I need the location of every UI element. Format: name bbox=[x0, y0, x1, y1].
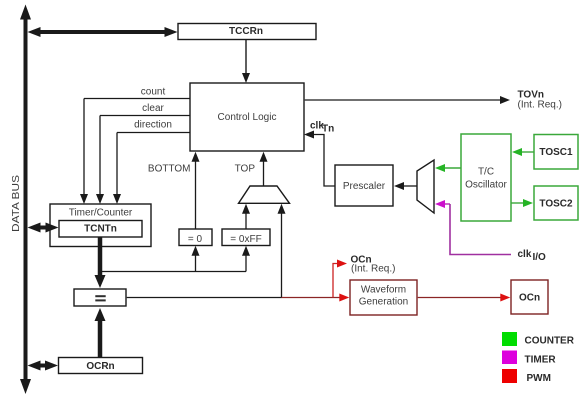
node: data bus top arrowhead bbox=[20, 5, 31, 20]
comparator: 0xFF compare bbox=[222, 229, 270, 246]
block: Prescaler bbox=[335, 165, 393, 206]
wire: bus to OCRn double arrow bbox=[36, 364, 50, 368]
svg-text:(Int. Req.): (Int. Req.) bbox=[518, 100, 562, 111]
wire: DATA BUS vertical bus line bbox=[24, 16, 28, 383]
wire: clear signal bbox=[100, 115, 190, 117]
wire: direction signal bbox=[117, 132, 190, 134]
mux: clock source select bbox=[417, 160, 434, 213]
pin: OCn output bbox=[511, 280, 548, 314]
wire: oscillator to TOSC2 (green) bbox=[511, 202, 525, 204]
svg-text:TOSC1: TOSC1 bbox=[539, 147, 573, 158]
svg-text:= 0: = 0 bbox=[188, 234, 203, 245]
legend: PWM (red) bbox=[502, 369, 517, 383]
svg-text:direction: direction bbox=[134, 120, 172, 131]
wire: count signal bbox=[84, 98, 190, 100]
svg-text:TCNTn: TCNTn bbox=[84, 224, 117, 235]
comparator: equality = bbox=[74, 289, 126, 306]
pin: TOSC1 bbox=[534, 135, 578, 170]
svg-text:OCn: OCn bbox=[519, 293, 540, 304]
svg-text:TIMER: TIMER bbox=[525, 355, 557, 366]
wire: comparator output to waveform generation bbox=[127, 297, 282, 299]
svg-text:DATA BUS: DATA BUS bbox=[11, 175, 22, 232]
svg-text:Tn: Tn bbox=[322, 124, 334, 135]
svg-text:Prescaler: Prescaler bbox=[343, 181, 386, 192]
register TCNTn bbox=[59, 221, 142, 238]
block: T/C Oscillator bbox=[461, 134, 511, 221]
wire: T/C oscillator to mux (green) bbox=[443, 167, 461, 169]
wire: 0xFF compare to TOP mux bbox=[245, 211, 247, 229]
wire: TOP signal to control logic bbox=[263, 159, 265, 186]
block: Timer/Counter bbox=[50, 204, 151, 247]
svg-text:Control Logic: Control Logic bbox=[218, 112, 277, 123]
block: Waveform Generation bbox=[350, 280, 417, 315]
wire: bus to TCCRn double arrow bbox=[37, 30, 168, 34]
wire: TOSC1 to oscillator (green) bbox=[520, 151, 534, 153]
wire: OCn interrupt branch bbox=[333, 264, 339, 298]
svg-text:Waveform: Waveform bbox=[361, 285, 406, 296]
svg-text:TCCRn: TCCRn bbox=[229, 26, 263, 37]
wire: clkTn from prescaler to control logic bbox=[313, 135, 335, 187]
register TCCRn bbox=[178, 24, 316, 40]
svg-text:PWM: PWM bbox=[527, 373, 551, 384]
wire: TCCRn to Control Logic bbox=[245, 40, 247, 75]
register OCRn bbox=[59, 358, 143, 374]
wire: BOTTOM signal to control logic bbox=[195, 159, 197, 229]
svg-text:OCRn: OCRn bbox=[86, 361, 114, 372]
comparator: zero compare bbox=[179, 229, 212, 246]
wire: OCRn match to TOP mux bbox=[281, 211, 283, 298]
svg-text:clk: clk bbox=[518, 249, 532, 260]
svg-text:(Int. Req.): (Int. Req.) bbox=[351, 264, 395, 275]
node: data bus bottom arrowhead bbox=[20, 379, 31, 394]
pin: TOSC2 bbox=[534, 186, 578, 220]
svg-text:TOP: TOP bbox=[235, 164, 256, 175]
svg-text:= 0xFF: = 0xFF bbox=[230, 234, 261, 245]
svg-text:clear: clear bbox=[142, 103, 164, 114]
svg-text:count: count bbox=[141, 87, 166, 98]
wire: mux to prescaler bbox=[402, 185, 417, 187]
mux: TOP select trapezoid bbox=[239, 186, 290, 203]
svg-text:Oscillator: Oscillator bbox=[465, 180, 507, 191]
svg-text:T/C: T/C bbox=[478, 167, 494, 178]
svg-text:COUNTER: COUNTER bbox=[525, 336, 575, 347]
wire: TCNTn value to comparator (thick) bbox=[98, 237, 103, 278]
svg-text:Timer/Counter: Timer/Counter bbox=[69, 208, 133, 219]
wire: waveform generation to OCn pin bbox=[418, 297, 502, 299]
wire: TCNTn value branch to =0 and =0xFF bbox=[100, 271, 246, 273]
block: Control Logic U1 bbox=[190, 83, 304, 151]
svg-text:BOTTOM: BOTTOM bbox=[148, 164, 191, 175]
wire: TOVn interrupt line bbox=[305, 99, 502, 101]
wire: bus to TCNTn double arrow bbox=[36, 226, 50, 230]
legend: TIMER (magenta) bbox=[502, 351, 517, 365]
wire: clkIO to mux (magenta) bbox=[443, 203, 450, 205]
svg-text:I/O: I/O bbox=[533, 252, 547, 263]
legend: COUNTER (green) bbox=[502, 332, 517, 346]
svg-text:Generation: Generation bbox=[359, 297, 408, 308]
wire: OCRn to comparator (thick) bbox=[98, 319, 103, 358]
svg-text:TOSC2: TOSC2 bbox=[539, 199, 573, 210]
